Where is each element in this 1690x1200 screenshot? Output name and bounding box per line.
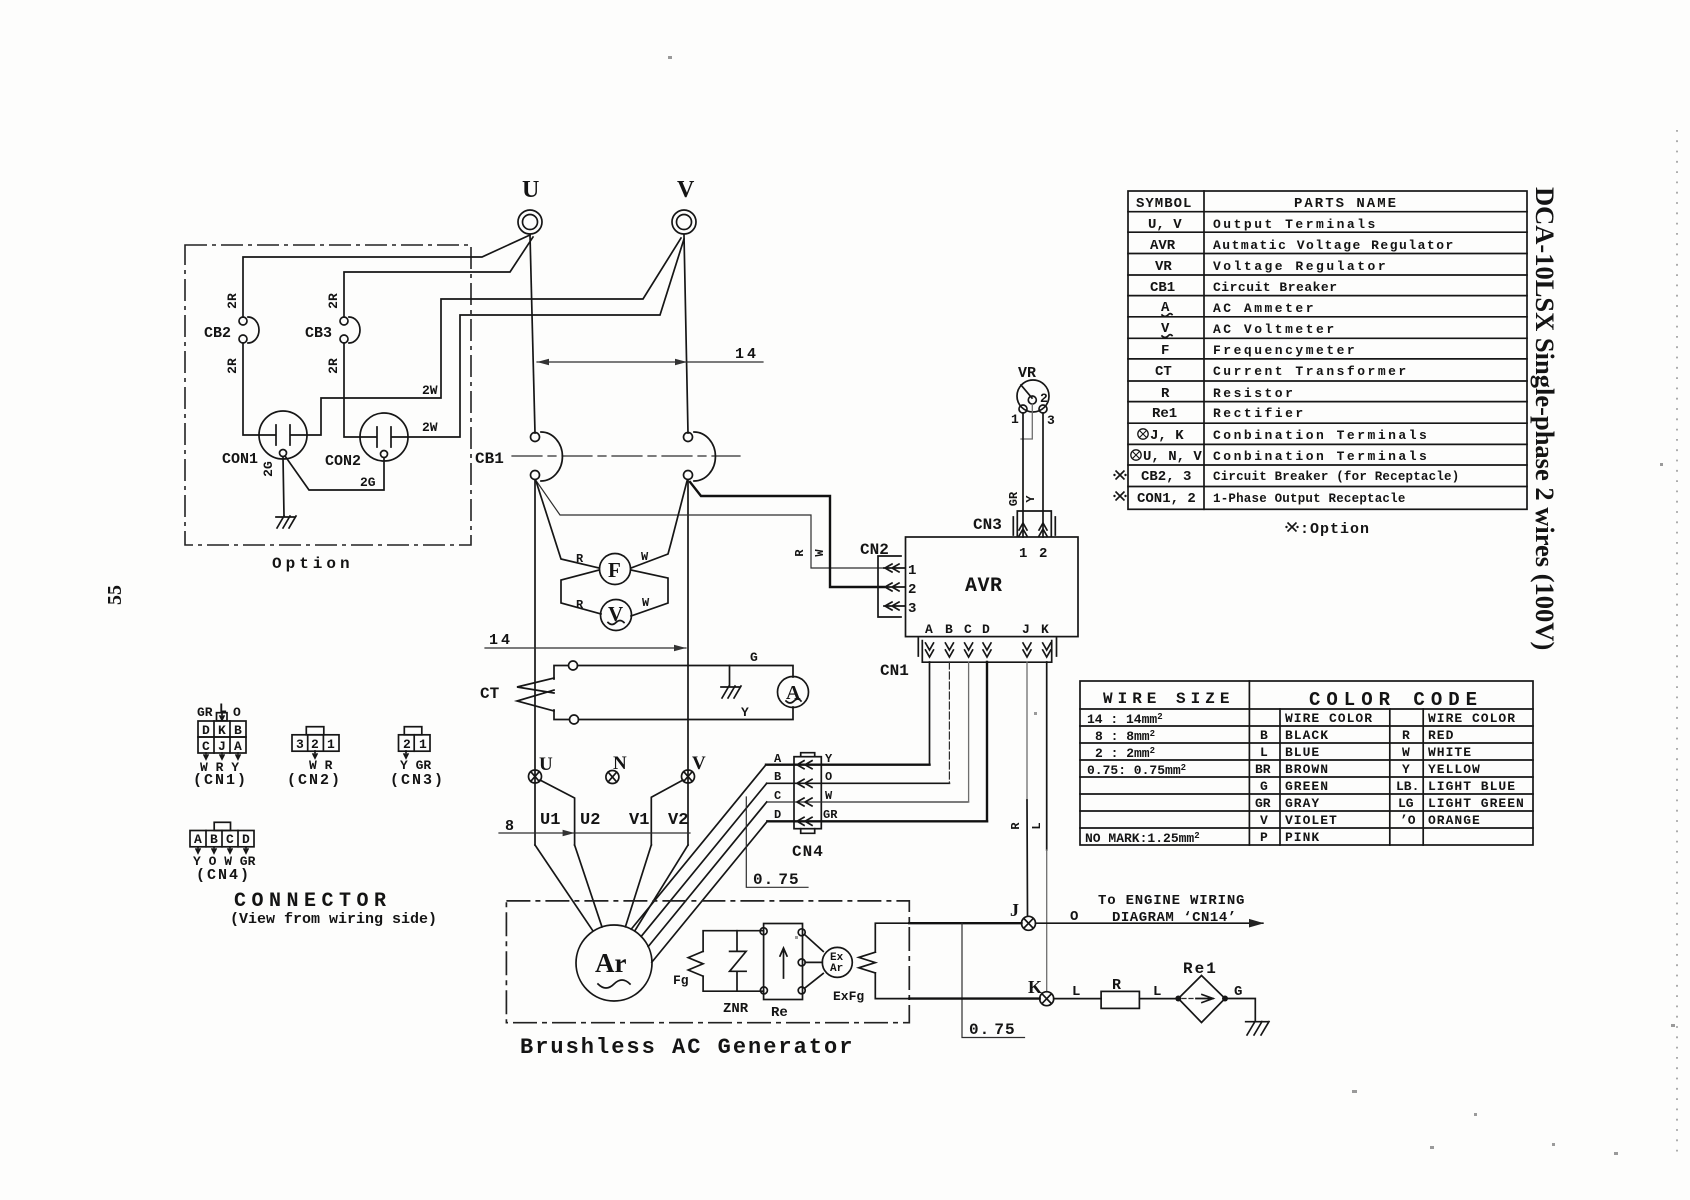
svg-text:Voltage Regulator: Voltage Regulator [1213,259,1388,274]
svg-text:LIGHT GREEN: LIGHT GREEN [1428,796,1525,811]
connector view CN1 [193,701,248,789]
svg-text:A: A [234,739,242,754]
svg-text:DCA-10LSX Single-phase 2 wire: DCA-10LSX Single-phase 2 wires (100V) [1530,187,1560,650]
row U,N,V [1131,450,1141,460]
wire B diagonal to generator [641,783,767,936]
wire 2G CON1 to CON2 [285,456,384,490]
resistor R [1101,991,1139,1008]
svg-text:G: G [1260,779,1268,794]
0.75 wire size leader [746,797,808,887]
svg-text:2: 2 [311,737,319,752]
wire VR pin3 down to CN3 pin2 [1042,413,1044,537]
wire size / color code table frame [1080,681,1533,845]
svg-text:CN1: CN1 [880,662,909,680]
svg-text:U2: U2 [580,811,600,830]
CN4 row B wire [767,782,950,784]
svg-text:L: L [1030,822,1044,829]
svg-text:Autmatic Voltage Regulator: Autmatic Voltage Regulator [1213,238,1455,253]
svg-text:Y: Y [1402,762,1410,777]
svg-text:C: C [226,832,234,847]
connector view CN3 [390,727,445,789]
svg-text:GR: GR [1255,796,1271,811]
armature Ar [576,925,652,1001]
wire CON2 right to V terminal (2W) [408,239,684,437]
svg-text:A: A [194,832,202,847]
svg-text:L: L [219,701,227,716]
svg-text:VIOLET: VIOLET [1285,813,1338,828]
svg-text:CON1, 2: CON1, 2 [1137,491,1196,507]
svg-text::Option: :Option [1300,521,1370,538]
svg-text:PINK: PINK [1285,830,1320,845]
svg-text:R: R [1402,728,1410,743]
svg-text:O: O [1070,909,1078,925]
scan noise specks [668,56,1675,1155]
wire CN1-D down [986,662,988,821]
svg-text:GREEN: GREEN [1285,779,1329,794]
svg-text:V2: V2 [668,811,688,830]
svg-text:A: A [925,622,933,637]
wire CB1-U to CN2 pin1 [537,482,884,568]
svg-text:L: L [1072,984,1080,1000]
svg-text:Re: Re [771,1005,788,1021]
exciter armature ExAr [822,947,852,977]
varistor ZNR [730,931,747,992]
svg-text:(CN4): (CN4) [196,867,251,884]
AC ammeter A [778,677,809,708]
wire ExFg top to J line [875,923,909,952]
wire A diagonal to generator [631,765,766,930]
svg-text:COLOR CODE: COLOR CODE [1309,689,1483,711]
row CON1,2 [1113,492,1126,501]
svg-text:Rectifier: Rectifier [1213,406,1306,421]
svg-text:Y: Y [741,705,749,720]
svg-text:2: 2 [403,737,411,752]
wire ExFg bottom to K line [875,973,909,999]
wire CT bottom to ammeter [579,707,794,720]
svg-text:To ENGINE WIRING: To ENGINE WIRING [1098,893,1245,909]
svg-text:1-Phase Output Receptacle: 1-Phase Output Receptacle [1213,492,1406,506]
svg-text:Ar: Ar [595,948,626,978]
svg-text:R: R [576,598,584,612]
svg-text:W R: W R [309,758,333,773]
svg-text:2R: 2R [225,358,240,374]
svg-text:8 : 8mm2: 8 : 8mm2 [1095,729,1155,744]
wire CB3 bottom to CON2 [344,343,360,437]
svg-text:U: U [539,754,553,775]
svg-text:C: C [202,739,210,754]
wire D diagonal to generator [652,821,768,962]
svg-text:2 : 2mm2: 2 : 2mm2 [1095,746,1155,761]
svg-text:CB1: CB1 [475,450,504,468]
winding U1 into generator [535,845,593,931]
svg-text:BLACK: BLACK [1285,728,1329,743]
wire CON1 right to V terminal (2W) [307,238,681,435]
dimension 14 (top) [537,361,763,363]
svg-text:AVR: AVR [1150,238,1176,254]
svg-text:V: V [677,177,695,203]
svg-text:BR: BR [1255,762,1271,777]
svg-text:K: K [1041,622,1049,637]
svg-text:R: R [576,552,584,566]
svg-text:G: G [750,650,758,665]
rectifier assembly Re [764,924,803,1000]
svg-text:D: D [202,723,210,738]
svg-text:B: B [945,622,953,637]
svg-text:1: 1 [908,563,916,579]
ground under CON1 [276,516,296,528]
sections inserted below [185,235,684,573]
CN4 row A wire [766,764,930,766]
svg-text:Conbination Terminals: Conbination Terminals [1213,428,1429,443]
wire CN1-B down [948,662,950,783]
svg-text:YELLOW: YELLOW [1428,762,1481,777]
svg-text:B: B [234,723,242,738]
svg-text:1: 1 [419,737,427,752]
svg-text:14: 14 [735,346,759,363]
svg-text:Circuit Breaker: Circuit Breaker [1213,280,1338,295]
svg-text:F: F [1161,343,1169,359]
svg-text:W: W [825,789,833,803]
parts table frame [1128,191,1527,509]
svg-text:W: W [641,550,649,564]
svg-text:P: P [1260,830,1268,845]
svg-text:C: C [774,789,781,803]
row J,K [1138,429,1148,439]
svg-text:2: 2 [908,582,916,598]
svg-text:BLUE: BLUE [1285,745,1320,760]
svg-text:AC Voltmeter: AC Voltmeter [1213,322,1337,337]
wire CON1 to ground [283,457,284,516]
voltmeter V [601,600,632,631]
svg-text:DIAGRAM ‘CN14’: DIAGRAM ‘CN14’ [1112,910,1237,926]
svg-text:F: F [608,558,621,582]
svg-text:WHITE: WHITE [1428,745,1472,760]
svg-text:B: B [774,770,781,784]
svg-text:GR: GR [823,808,838,822]
svg-text:A: A [774,752,782,766]
svg-text:WIRE COLOR: WIRE COLOR [1428,711,1516,726]
svg-text:ExFg: ExFg [833,989,864,1004]
svg-text:2: 2 [1039,546,1047,562]
svg-text:1: 1 [1011,412,1019,427]
svg-text:Re1: Re1 [1183,960,1218,978]
svg-text:V: V [692,753,706,774]
wire CB1-V down to winding [687,480,689,845]
svg-text:CB2: CB2 [204,325,231,342]
svg-text:L: L [1153,984,1161,1000]
svg-text:1: 1 [1019,546,1027,562]
connector CN1 bracket [922,641,1051,663]
svg-text:GR: GR [1007,491,1021,506]
svg-text:B: B [1260,728,1268,743]
svg-text:R: R [1161,386,1170,402]
wire CB1-V to CN2 pin2 [690,482,884,587]
svg-text:CONNECTOR: CONNECTOR [234,890,392,913]
svg-text:CT: CT [1155,364,1172,380]
wire CT top to ammeter [578,666,794,678]
svg-text:U1: U1 [540,811,560,830]
svg-text:SYMBOL: SYMBOL [1136,196,1192,212]
svg-text:(View from wiring side): (View from wiring side) [230,911,437,928]
svg-text:L: L [1260,745,1268,760]
wire CN1-A down [929,662,931,765]
wire V terminal down to CB1 [684,235,688,433]
svg-text:Option: Option [272,555,354,573]
frequency meter F [600,554,631,585]
svg-text:3: 3 [908,601,916,617]
svg-text:Circuit Breaker (for Receptacl: Circuit Breaker (for Receptacle) [1213,470,1459,484]
svg-text:Frequencymeter: Frequencymeter [1213,343,1357,358]
CN1 pin arrows (down) [926,643,934,657]
svg-text:G: G [1234,984,1242,1000]
svg-text:2W: 2W [422,383,438,398]
svg-text:2R: 2R [326,358,341,374]
connector CN4 box [794,757,821,829]
svg-text:PARTS NAME: PARTS NAME [1294,196,1398,212]
svg-text:U: U [522,177,539,203]
field winding Fg [688,951,703,976]
winding V1 into generator [625,845,651,927]
svg-text:GR: GR [197,705,213,720]
option box (dashed enclosure) [185,245,471,545]
winding lead V1 [651,780,683,845]
wire VR pin1 down to CN3 pin1 [1022,413,1024,537]
svg-text:LB.: LB. [1396,779,1419,794]
connector view CN4 [190,822,256,884]
svg-text:2: 2 [1040,391,1048,406]
svg-text:3: 3 [296,737,304,752]
svg-text:CB3: CB3 [305,325,332,342]
svg-text:GRAY: GRAY [1285,796,1320,811]
connector view CN2 [287,727,342,789]
svg-text:CN4: CN4 [792,843,824,861]
ground (Re1) [1246,1022,1269,1036]
row CB2,3 [1113,471,1126,480]
svg-text:CB1: CB1 [1150,280,1175,296]
svg-text:BROWN: BROWN [1285,762,1329,777]
svg-text:0. 75: 0. 75 [753,871,800,889]
svg-text:K: K [218,723,226,738]
svg-text:AVR: AVR [965,575,1003,598]
svg-text:Current Transformer: Current Transformer [1213,364,1409,379]
svg-text:LG: LG [1398,796,1414,811]
CN3 pin arrows [1019,523,1027,536]
svg-text:B: B [210,832,218,847]
svg-text:U, N, V: U, N, V [1143,449,1202,465]
svg-text:Ar: Ar [830,963,843,975]
connector CN2 bracket [878,556,901,617]
svg-text:ZNR: ZNR [723,1001,749,1017]
wire CB1-U down to winding [534,480,536,845]
receptacle CON2 [360,413,408,461]
svg-text:CT: CT [480,685,500,703]
wire CB1-U to meters [536,481,599,568]
wire C diagonal to generator [648,802,767,947]
svg-text:’O: ’O [1400,813,1416,828]
svg-text:LIGHT BLUE: LIGHT BLUE [1428,779,1516,794]
CN4 row D wire [767,820,987,822]
svg-text:K: K [1028,977,1042,997]
perforation dotted line (right edge) [1676,130,1678,1160]
svg-text:ORANGE: ORANGE [1428,813,1481,828]
svg-text:2R: 2R [326,293,341,309]
svg-text:Resistor: Resistor [1213,386,1295,401]
connector CN3 bracket [1017,511,1051,536]
dimension 14 (CT level) [485,647,686,649]
wire CN1-C down [968,662,970,802]
svg-text:C: C [964,622,972,637]
svg-text:W: W [642,596,650,610]
svg-text:AC Ammeter: AC Ammeter [1213,301,1316,316]
svg-text:55: 55 [104,585,126,605]
wire CB3 top to terminal U [344,237,533,317]
ground on G wire [721,666,741,699]
wire CB2 bottom to CON1 [243,343,259,435]
svg-text:CB2, 3: CB2, 3 [1141,469,1191,485]
svg-text:V1: V1 [629,811,649,830]
0.75 wire size leader (J/K) [962,923,1025,1037]
svg-text:W: W [1402,745,1410,760]
svg-text:(CN2): (CN2) [287,772,342,789]
svg-text:V: V [1260,813,1268,828]
svg-text:D: D [774,808,781,822]
wires Re to ExAr [805,935,824,989]
wire CN1-K down to node K [1046,662,1048,850]
svg-text:J: J [218,739,226,754]
svg-text:Re1: Re1 [1152,406,1177,422]
svg-text:Y: Y [1024,495,1038,503]
svg-text:2R: 2R [225,293,240,309]
svg-text:Brushless AC Generator: Brushless AC Generator [520,1035,854,1060]
receptacle CON1 [259,411,307,459]
svg-text:CON1: CON1 [222,451,258,468]
svg-text:CN3: CN3 [973,516,1002,534]
svg-text:Conbination Terminals: Conbination Terminals [1213,449,1429,464]
svg-text:2W: 2W [422,420,438,435]
svg-text:O: O [233,705,241,720]
svg-text:J: J [1010,900,1019,920]
svg-text:WIRE SIZE: WIRE SIZE [1103,690,1234,708]
svg-text:CON2: CON2 [325,453,361,470]
dimension 8 [499,832,690,834]
svg-text:8: 8 [505,818,514,835]
svg-text:WIRE COLOR: WIRE COLOR [1285,711,1373,726]
svg-text:14: 14 [489,632,513,649]
svg-text:Y GR: Y GR [400,758,431,773]
svg-text:U, V: U, V [1148,217,1182,233]
wire CN1-J down to node J [1026,662,1028,800]
exciter field ExFg [859,952,876,973]
CN4 row C wire [767,801,969,803]
wire VR wiper to pin1 wire [1021,404,1032,439]
svg-text:R: R [793,549,807,557]
winding lead U2 [540,780,575,845]
wire CB2 top to node [243,235,530,317]
svg-text:R: R [1112,977,1121,994]
brushless AC generator enclosure [506,901,909,1023]
svg-text:Output Terminals: Output Terminals [1213,217,1378,232]
svg-text:0. 75: 0. 75 [969,1021,1016,1039]
wire J to engine [909,922,1021,924]
wire CB1-V to meters [631,481,687,568]
option note [1285,523,1298,532]
CT loop top [569,661,578,670]
svg-text:R: R [1009,822,1023,830]
svg-text:Y: Y [825,752,833,766]
svg-text:2G: 2G [261,461,276,477]
svg-text:J: J [1022,622,1030,637]
svg-text:(CN1): (CN1) [193,772,248,789]
svg-text:(CN3): (CN3) [390,772,445,789]
svg-text:NO MARK:1.25mm2: NO MARK:1.25mm2 [1085,831,1200,846]
svg-text:0.75: 0.75mm2: 0.75: 0.75mm2 [1087,763,1186,778]
winding V2 into generator [635,845,688,931]
winding U2 into generator [575,845,602,927]
wire R to Re1 [1139,998,1178,1000]
svg-text:D: D [242,832,250,847]
svg-text:J, K: J, K [1150,428,1184,444]
AVR automatic voltage regulator box U1 [906,537,1079,637]
wire Fg loop [703,931,764,992]
svg-text:1: 1 [327,737,335,752]
wire Re1 to ground [1225,999,1255,1022]
svg-text:3: 3 [1047,413,1055,428]
svg-text:2G: 2G [360,475,376,490]
svg-text:W: W [813,549,827,557]
wire U terminal down to CB1 [530,235,535,433]
svg-text:D: D [982,622,990,637]
wire K to R [909,997,1039,999]
svg-text:RED: RED [1428,728,1454,743]
svg-text:Fg: Fg [673,973,689,988]
svg-text:VR: VR [1155,259,1172,275]
svg-text:14 : 14mm2: 14 : 14mm2 [1087,712,1163,727]
svg-text:O: O [825,770,832,784]
